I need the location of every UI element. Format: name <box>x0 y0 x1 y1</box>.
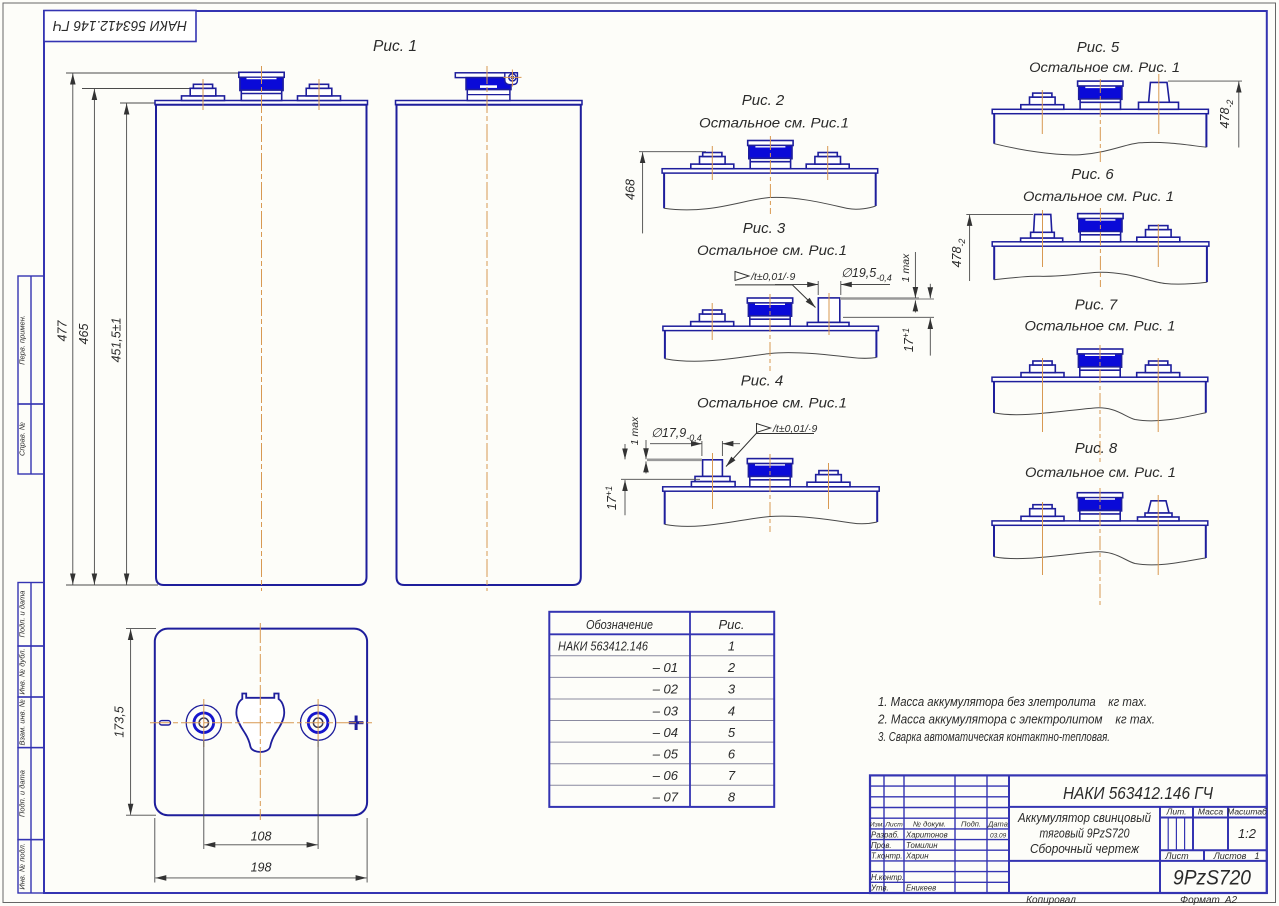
svg-text:тяговый 9PzS720: тяговый 9PzS720 <box>1040 826 1131 841</box>
svg-text:Остальное см. Рис.1: Остальное см. Рис.1 <box>697 395 847 411</box>
Fig.8 break wave <box>994 552 1206 565</box>
svg-text:Подп. и дата: Подп. и дата <box>18 591 27 638</box>
Fig.8 negative terminal <box>1021 505 1064 521</box>
Fig.3 weld leader <box>735 285 816 308</box>
minus mark <box>160 721 171 725</box>
Fig.2 centerlines <box>711 146 713 180</box>
svg-text:Пров.: Пров. <box>871 841 892 850</box>
positive terminal circles (bottom view) <box>301 705 336 740</box>
Fig.8 centerlines <box>1042 502 1044 575</box>
Fig.5 dimension 478-2 <box>1168 80 1242 82</box>
left margin box: Инв. № дубл. <box>18 646 44 697</box>
svg-text:Остальное см. Рис. 1: Остальное см. Рис. 1 <box>1025 464 1176 480</box>
svg-text:Перв. примен.: Перв. примен. <box>18 315 27 365</box>
battery front view: lid <box>155 101 368 105</box>
centerline of side view <box>486 66 488 591</box>
svg-text:477: 477 <box>56 320 70 342</box>
Fig.4 lid <box>663 487 880 491</box>
svg-text:Н.контр.: Н.контр. <box>871 873 904 882</box>
positive terminal (front view) <box>298 84 341 100</box>
svg-text:НАКИ 563412.146 ГЧ: НАКИ 563412.146 ГЧ <box>52 17 187 34</box>
svg-text:– 02: – 02 <box>652 682 679 697</box>
centerline positive terminal <box>318 79 320 110</box>
svg-text:НАКИ 563412.146 ГЧ: НАКИ 563412.146 ГЧ <box>1063 783 1213 803</box>
shared bottom extension line <box>66 584 158 586</box>
svg-text:Рис. 4: Рис. 4 <box>741 373 784 390</box>
Fig.4 pin top reference line <box>647 458 702 461</box>
svg-text:Рис. 2: Рис. 2 <box>742 92 785 109</box>
Fig.4 machined pin <box>703 460 723 477</box>
svg-text:Масштаб: Масштаб <box>1227 807 1268 817</box>
table header separator <box>549 633 774 635</box>
svg-text:Еникеев: Еникеев <box>906 884 936 893</box>
svg-text:1: 1 <box>728 639 735 654</box>
plus mark <box>349 721 364 724</box>
Fig.4 lid reference line <box>621 478 700 480</box>
top-left stamp box <box>44 11 196 42</box>
Fig.7 centerlines <box>1042 358 1044 432</box>
svg-text:1 max: 1 max <box>629 416 641 445</box>
svg-text:– 05: – 05 <box>652 746 679 761</box>
svg-text:1: 1 <box>1254 851 1259 861</box>
svg-text:4: 4 <box>728 703 735 718</box>
svg-text:108: 108 <box>251 830 272 844</box>
svg-text:Справ. №: Справ. № <box>18 422 27 456</box>
Fig.2 break wave <box>664 197 876 210</box>
svg-text:Подп. и дата: Подп. и дата <box>18 770 27 817</box>
svg-text:Т.контр.: Т.контр. <box>871 852 902 861</box>
dimension 477 extension line top <box>66 72 240 74</box>
svg-text:Остальное см. Рис. 1: Остальное см. Рис. 1 <box>1029 59 1180 75</box>
Fig.5 body sides <box>993 114 995 144</box>
hinge pin crosshair <box>504 76 522 78</box>
left margin box: Перв. примен. <box>18 276 44 404</box>
svg-text:468: 468 <box>624 179 638 200</box>
vent plug (side view) blue body <box>466 78 511 90</box>
Fig.8 lid <box>992 521 1208 525</box>
Fig.2 body sides <box>663 173 665 208</box>
Fig.6 break wave <box>994 272 1207 284</box>
Fig.7 body sides <box>993 382 995 413</box>
svg-text:/t±0,01/·9: /t±0,01/·9 <box>750 271 795 283</box>
Fig.8 body sides <box>993 525 995 556</box>
svg-text:Харин: Харин <box>905 852 929 861</box>
svg-text:– 03: – 03 <box>652 703 679 718</box>
svg-text:Остальное см. Рис. 1: Остальное см. Рис. 1 <box>1023 188 1174 204</box>
svg-text:Рис. 3: Рис. 3 <box>743 220 786 237</box>
Fig.3 vent plug <box>747 298 792 326</box>
svg-text:Изм.: Изм. <box>870 822 885 829</box>
Fig.7 break wave <box>994 408 1206 421</box>
Fig.4 body sides <box>664 491 666 524</box>
svg-text:1:2: 1:2 <box>1238 826 1257 841</box>
vent plug hinge bracket <box>505 73 518 85</box>
svg-text:– 04: – 04 <box>652 725 678 740</box>
svg-text:Рис.: Рис. <box>718 617 744 632</box>
Fig.3 break wave <box>665 353 877 362</box>
svg-text:Рис. 6: Рис. 6 <box>1071 166 1114 183</box>
dimension 198 <box>154 818 156 883</box>
Fig.4 dimension 1 max <box>645 440 647 459</box>
svg-text:– 01: – 01 <box>652 660 678 675</box>
svg-text:Копировал: Копировал <box>1026 895 1076 906</box>
Fig.2 dimension 468 extension line <box>639 151 706 153</box>
Fig.8 positive cone terminal <box>1148 501 1169 513</box>
svg-text:Инв. № дубл.: Инв. № дубл. <box>18 648 27 694</box>
svg-text:5: 5 <box>728 725 736 740</box>
dimension 108 <box>203 741 205 849</box>
svg-text:Лист: Лист <box>884 822 903 829</box>
svg-text:451,5±1: 451,5±1 <box>110 317 124 362</box>
svg-text:Разраб.: Разраб. <box>871 830 899 839</box>
svg-text:Остальное см. Рис.1: Остальное см. Рис.1 <box>699 115 849 131</box>
Fig.4 weld symbol <box>757 424 771 433</box>
Fig.6 tall pin <box>1034 214 1052 232</box>
svg-text:Инв. № подл.: Инв. № подл. <box>18 843 27 890</box>
Fig.3 centerlines <box>711 303 713 340</box>
Fig.5 tall pin <box>1149 82 1170 102</box>
svg-text:Сборочный чертеж: Сборочный чертеж <box>1030 841 1140 856</box>
Fig.3 lid reference line <box>843 316 934 318</box>
Fig.2 vent plug <box>748 141 793 169</box>
svg-text:– 06: – 06 <box>652 768 679 783</box>
svg-text:Подп.: Подп. <box>961 820 981 829</box>
Fig.4 weld leader <box>726 434 814 467</box>
vent plug (front view) <box>239 72 284 100</box>
Fig.4 positive terminal <box>807 471 850 487</box>
svg-text:– 07: – 07 <box>652 790 679 805</box>
Fig.5 centerlines <box>1041 90 1043 134</box>
terminal centerline right <box>317 699 319 747</box>
svg-text:Взам. инв. №: Взам. инв. № <box>18 699 27 745</box>
svg-text:Остальное см. Рис.1: Остальное см. Рис.1 <box>697 242 847 258</box>
dimension line 465 <box>93 89 95 585</box>
negative terminal (front view) <box>182 84 225 100</box>
svg-text:А2: А2 <box>1224 895 1238 906</box>
vent plug (side view) collar <box>467 90 510 101</box>
centerline negative terminal <box>202 79 204 110</box>
Fig.5 vent plug <box>1078 81 1123 109</box>
Fig.6 body sides <box>993 246 995 280</box>
Fig.2 lid <box>662 169 878 173</box>
svg-text:Обозначение: Обозначение <box>586 617 653 632</box>
battery side view: lid <box>396 101 583 105</box>
vent hole (bottom view) <box>236 694 284 752</box>
Fig.5 break wave <box>994 142 1206 154</box>
Fig.6 vent plug <box>1078 214 1123 242</box>
svg-text:Утв.: Утв. <box>870 884 889 893</box>
Fig.4 break wave <box>665 516 878 526</box>
svg-text:Лит.: Лит. <box>1166 807 1187 817</box>
svg-text:Листов: Листов <box>1213 851 1247 861</box>
svg-text:173,5: 173,5 <box>113 706 127 737</box>
svg-text:Рис. 7: Рис. 7 <box>1075 297 1118 314</box>
Fig.5 negative terminal <box>1021 93 1064 109</box>
Fig.6 centerlines <box>1042 210 1044 267</box>
Fig.3 pin top reference line <box>840 297 919 300</box>
svg-text:3: 3 <box>728 682 736 697</box>
dimension 465 extension line top <box>82 88 196 90</box>
left margin box: Подп. и дата (upper) <box>18 583 44 647</box>
Fig.7 positive terminal <box>1137 361 1180 377</box>
Fig.6 dimension 478-2 <box>966 213 1033 215</box>
svg-text:Рис. 8: Рис. 8 <box>1075 440 1118 457</box>
svg-text:Дата: Дата <box>987 820 1008 829</box>
svg-text:2. Масса аккумулятора с электр: 2. Масса аккумулятора с электролитом кг … <box>877 712 1155 727</box>
dimension 451,5 extension line top <box>120 102 157 104</box>
vent plug (side view) plate <box>455 73 517 78</box>
Fig.5 lid <box>992 109 1208 113</box>
Fig.8 vent plug <box>1077 493 1122 521</box>
Fig.4 centerlines <box>712 453 714 509</box>
battery front view: body <box>156 105 367 585</box>
svg-text:Харитонов: Харитонов <box>905 830 948 839</box>
svg-text:3. Сварка автоматическая конта: 3. Сварка автоматическая контактно-тепло… <box>878 729 1110 744</box>
Fig.4 dimension 17+1 <box>624 444 626 459</box>
Fig.3 diameter dimension <box>817 281 819 295</box>
svg-text:9PzS720: 9PzS720 <box>1173 867 1251 890</box>
Fig.6 positive terminal <box>1137 226 1180 242</box>
svg-text:НАКИ 563412.146: НАКИ 563412.146 <box>558 639 649 654</box>
left margin box: Подп. и дата (lower) <box>18 748 44 840</box>
Fig.3 body sides <box>664 331 666 359</box>
svg-text:198: 198 <box>251 861 272 875</box>
table column divider <box>689 612 691 807</box>
svg-text:2: 2 <box>727 660 736 675</box>
bottom view outline <box>155 629 367 816</box>
svg-text:Остальное см. Рис. 1: Остальное см. Рис. 1 <box>1025 318 1176 334</box>
bottom view horizontal centerline <box>150 722 372 724</box>
svg-text:6: 6 <box>728 746 736 761</box>
Fig.3 lid <box>663 326 879 330</box>
Fig.7 vent plug <box>1077 349 1122 377</box>
left margin box: Взам. инв. № <box>18 697 44 748</box>
Fig.2 dimension 468 <box>642 152 644 233</box>
Fig.6 lid <box>992 242 1209 246</box>
svg-text:Рис. 1: Рис. 1 <box>373 38 417 55</box>
table outer border <box>549 612 774 807</box>
Fig.2 positive terminal <box>806 153 849 169</box>
terminal centerline left <box>203 699 205 747</box>
Fig.4 vent plug <box>747 459 792 487</box>
dimension 173,5 <box>126 628 156 630</box>
negative terminal circles (bottom view) <box>186 705 221 740</box>
Fig.3 dimension 17+1 <box>929 284 931 298</box>
Fig.7 negative terminal <box>1021 361 1064 377</box>
svg-text:Лист: Лист <box>1164 851 1189 861</box>
svg-text:8: 8 <box>728 790 736 805</box>
Fig.3 machined pin <box>818 298 840 323</box>
dimension line 451,5±1 <box>126 104 128 585</box>
bottom view vertical centerline <box>259 623 261 820</box>
svg-text:№ докум.: № докум. <box>913 820 946 829</box>
dimension line 477 <box>72 74 74 585</box>
svg-text:465: 465 <box>77 324 91 345</box>
svg-text:Аккумулятор свинцовый: Аккумулятор свинцовый <box>1017 810 1151 825</box>
svg-text:Томилин: Томилин <box>906 841 938 850</box>
svg-text:1. Масса аккумулятора без злет: 1. Масса аккумулятора без злетролита кг … <box>878 694 1147 709</box>
left margin box: Справ. № <box>18 404 44 474</box>
svg-text:03.09: 03.09 <box>990 832 1007 839</box>
Fig.3 negative terminal <box>691 310 734 326</box>
Fig.7 lid <box>992 377 1208 381</box>
Fig.3 dimension 1 max <box>914 252 916 298</box>
svg-text:1 max: 1 max <box>900 253 912 282</box>
Fig.2 negative terminal <box>691 153 734 169</box>
svg-text:Масса: Масса <box>1198 807 1223 817</box>
vent plug hinge pin circle <box>509 74 516 81</box>
battery side view: body <box>397 105 581 585</box>
Fig.3 weld symbol <box>735 272 749 281</box>
title block outer <box>870 775 1267 893</box>
left margin box: Инв. № подл. <box>18 840 44 893</box>
svg-text:7: 7 <box>728 768 736 783</box>
svg-text:Рис. 5: Рис. 5 <box>1077 39 1120 56</box>
svg-text:Формат: Формат <box>1180 895 1220 906</box>
centerline of front view <box>261 66 263 591</box>
